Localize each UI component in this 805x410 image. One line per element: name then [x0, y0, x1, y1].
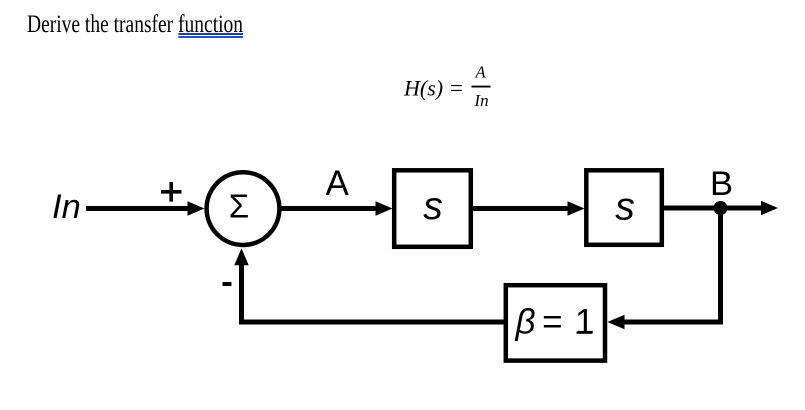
- wire In to summer: [86, 201, 205, 215]
- feedback block beta: [506, 285, 605, 360]
- wire feedback to summer: [234, 248, 504, 322]
- feedback block value beta = 1: [515, 303, 595, 342]
- svg-text:s: s: [423, 185, 443, 228]
- wire block1 to block2: [473, 201, 585, 215]
- node A label: [326, 164, 350, 203]
- integrator block 2: [586, 170, 662, 245]
- svg-text:s: s: [615, 186, 635, 229]
- plus sign: [161, 182, 182, 202]
- svg-text:H(s): H(s): [403, 76, 443, 101]
- equation H(s): [403, 75, 463, 100]
- summing junction circle: [207, 172, 280, 245]
- svg-text:A: A: [474, 63, 486, 82]
- svg-text:1: 1: [575, 303, 594, 342]
- node B label: [710, 165, 733, 203]
- minus sign: [223, 282, 232, 286]
- wire node B down to feedback: [608, 208, 721, 329]
- node B junction dot: [714, 201, 728, 215]
- wire block2 to output: [664, 201, 778, 215]
- equation fraction bar: [472, 86, 491, 88]
- block 2 value s: [615, 186, 635, 229]
- title text: [27, 12, 243, 37]
- integrator block 1: [394, 170, 471, 247]
- wire summer to block1: [281, 201, 393, 215]
- equation denominator In: [473, 91, 488, 110]
- svg-text:=: =: [542, 303, 562, 342]
- block 1 value s: [423, 185, 443, 228]
- svg-text:=: =: [450, 75, 463, 100]
- svg-text:β: β: [515, 303, 536, 342]
- svg-text:In: In: [52, 188, 81, 226]
- svg-text:In: In: [473, 91, 488, 110]
- svg-text:Σ: Σ: [229, 187, 249, 224]
- equation numerator A: [474, 63, 486, 82]
- sigma symbol: [229, 187, 249, 224]
- label In: [52, 188, 81, 226]
- svg-text:B: B: [710, 165, 733, 203]
- svg-text:A: A: [326, 164, 350, 203]
